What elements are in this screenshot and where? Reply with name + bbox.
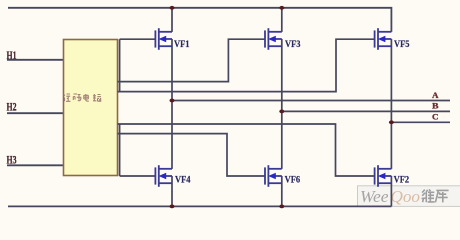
wire to VF1 gate xyxy=(120,38,156,40)
wire bus vertical V2 beside box xyxy=(119,124,121,176)
svg-text:VF5: VF5 xyxy=(394,40,410,50)
junction top rail VF3 xyxy=(279,6,284,10)
wire VF1 source to VF4 drain xyxy=(171,39,173,169)
wire pin to VF5 gate xyxy=(118,39,375,91)
wire H2 xyxy=(7,112,64,114)
wire pin to VF2 gate xyxy=(118,124,375,176)
wire VF3 drain xyxy=(281,8,283,32)
wire to VF4 gate xyxy=(120,175,156,177)
wire bus vertical V1 beside box xyxy=(119,39,121,91)
wire VF6 source xyxy=(281,176,283,206)
wire VF3 source to VF6 drain xyxy=(281,39,283,169)
junction bottom rail VF6 xyxy=(279,205,284,209)
transistor VF2 xyxy=(375,165,392,187)
svg-text:Qoo: Qoo xyxy=(391,187,421,206)
transistor VF3 xyxy=(265,28,282,50)
svg-text:VF2: VF2 xyxy=(394,176,410,186)
bottom rail xyxy=(8,205,391,207)
svg-text:VF6: VF6 xyxy=(285,176,301,186)
junction node A xyxy=(170,99,175,103)
junction node C xyxy=(389,120,394,124)
decoder box U1 xyxy=(64,40,118,176)
wire VF5 source to VF2 drain xyxy=(390,39,392,169)
svg-text:VF1: VF1 xyxy=(174,40,190,50)
wire H1 xyxy=(7,59,64,61)
transistor VF6 xyxy=(265,165,282,187)
top rail xyxy=(8,8,391,32)
wire phase A xyxy=(172,100,450,102)
wire VF4 source xyxy=(171,176,173,206)
junction top rail VF1 xyxy=(170,6,175,10)
svg-text:C: C xyxy=(432,112,439,121)
transistor VF1 xyxy=(155,28,172,50)
svg-text:A: A xyxy=(432,91,439,100)
wire pin to VF3 gate xyxy=(118,39,265,81)
svg-text:H2: H2 xyxy=(7,100,17,114)
decoder box text yima dianlu xyxy=(64,94,102,101)
wire VF2 source xyxy=(390,176,392,206)
svg-text:VF4: VF4 xyxy=(175,176,191,186)
wire phase C xyxy=(391,121,450,123)
transistor VF4 xyxy=(155,165,172,187)
svg-text:B: B xyxy=(432,102,439,111)
wire pin to VF6 gate xyxy=(118,134,265,176)
watermark WeeQoo weiku xyxy=(358,186,460,207)
wire H3 xyxy=(7,164,64,166)
junction node B xyxy=(279,110,284,114)
wire VF1 drain xyxy=(171,8,173,32)
junction bottom rail VF4 xyxy=(170,205,175,209)
svg-text:VF3: VF3 xyxy=(285,40,301,50)
transistor VF5 xyxy=(375,28,392,50)
wire phase B xyxy=(282,110,450,112)
svg-text:Wee: Wee xyxy=(360,187,389,206)
